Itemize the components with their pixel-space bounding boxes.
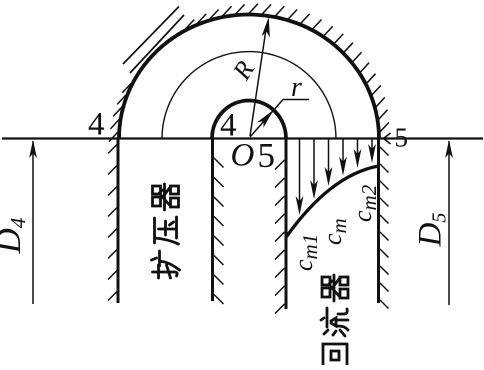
radius R arrowhead (262, 17, 270, 37)
svg-text:5: 5 (258, 136, 276, 175)
text 扩压器 (diffuser) as strokes (152, 184, 180, 278)
D4 dimension arrowhead (29, 140, 37, 158)
D4 dimension line (32, 141, 34, 304)
outer bend wall arc (radius R) (119, 15, 379, 139)
velocity profile curve (286, 166, 379, 238)
svg-text:cm: cm (318, 218, 351, 245)
wall 3 : return channel inner wall (285, 139, 288, 310)
radius r arrowhead (257, 110, 273, 128)
D5 dimension arrowhead (445, 140, 453, 158)
tangent hatch line outer (123, 7, 179, 65)
text 回流器 (return channel) as strokes (321, 275, 348, 367)
main horizontal line (plane 4-5) (2, 137, 483, 139)
wall 2 hatching (214, 158, 224, 304)
wall 1 : diffuser outer wall (117, 139, 120, 304)
radius r leader horizontal (283, 99, 309, 101)
inner bend wall arc (radius r) (212, 101, 286, 139)
D5 dimension line (448, 141, 450, 305)
wall 2 : diffuser inner wall (211, 139, 214, 302)
svg-text:5: 5 (395, 123, 409, 153)
svg-text:4: 4 (88, 107, 105, 143)
radius r arrow line (250, 100, 283, 138)
svg-text:cm2: cm2 (348, 184, 381, 222)
wall 4 hatching (380, 147, 389, 309)
radius R arrow line (250, 26, 267, 136)
svg-text:r: r (291, 72, 302, 103)
wall 4 : return channel outer wall (377, 139, 380, 304)
hatching on outer arc (109, 4, 389, 142)
svg-text:D5: D5 (413, 213, 451, 248)
svg-text:O: O (231, 138, 255, 174)
open arrowhead pointing at point 5 (right wall) (384, 133, 391, 144)
wall 3 hatching (275, 160, 285, 314)
tangent hatch line inner (130, 15, 184, 73)
velocity arrows (meridional velocity distribution) (296, 140, 376, 216)
middle streamline arc (162, 52, 336, 139)
svg-text:D4: D4 (0, 217, 30, 254)
wall 1 hatching (108, 144, 118, 301)
svg-text:R: R (226, 56, 260, 86)
